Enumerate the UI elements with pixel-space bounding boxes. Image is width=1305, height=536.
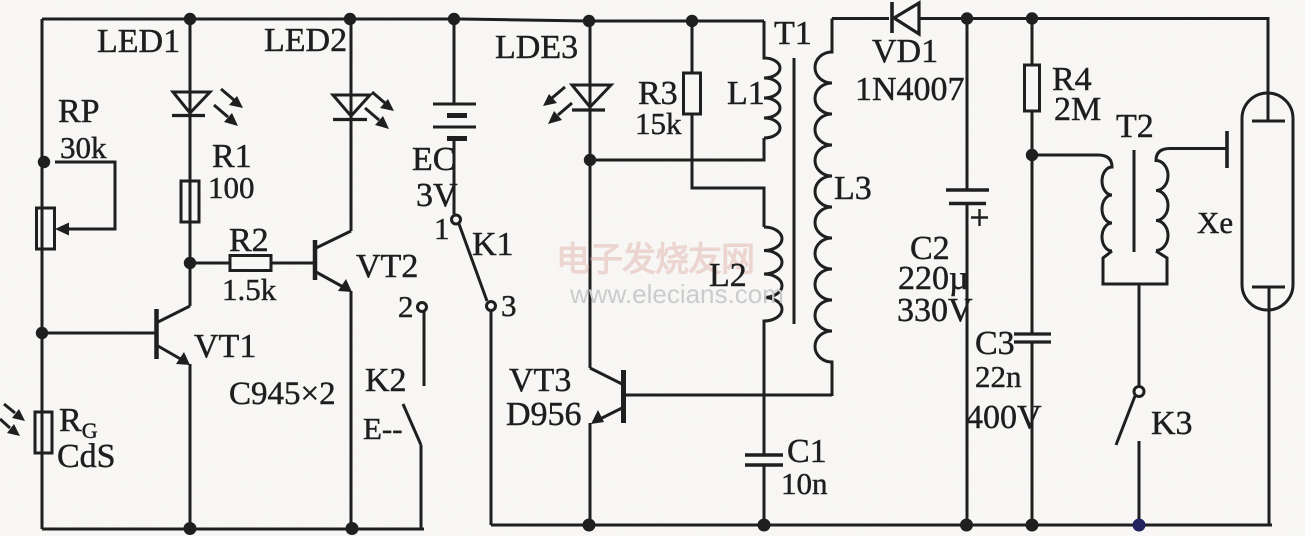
transistor VT3: [590, 368, 832, 525]
svg-text:E--: E--: [363, 411, 403, 446]
svg-text:100: 100: [208, 170, 255, 205]
svg-text:30k: 30k: [60, 130, 107, 165]
svg-text:VT3: VT3: [509, 362, 571, 399]
svg-text:330V: 330V: [897, 292, 973, 329]
inductor L2 (T1 primary lower): [764, 227, 782, 455]
svg-text:www.elecians.com: www.elecians.com: [569, 279, 784, 309]
watermark: [556, 241, 784, 309]
svg-text:C945×2: C945×2: [229, 376, 336, 412]
node bottom C2: [960, 519, 973, 532]
trigger electrode: [1225, 131, 1229, 168]
resistor R2: [190, 256, 315, 271]
node top rail C2: [961, 12, 973, 24]
potentiometer RP: [37, 162, 116, 249]
svg-text:K3: K3: [1151, 405, 1193, 442]
svg-text:1.5k: 1.5k: [222, 272, 277, 307]
node LDE3 cathode junction: [584, 154, 596, 166]
node top rail LDE3: [583, 15, 595, 27]
svg-text:RP: RP: [58, 93, 100, 130]
resistor R3: [684, 21, 765, 227]
svg-text:L2: L2: [709, 257, 747, 294]
svg-text:3: 3: [501, 288, 517, 323]
node RP wiper tap: [38, 156, 50, 168]
svg-text:C3: C3: [975, 325, 1015, 362]
diode VD1: [892, 2, 1268, 121]
svg-text:22n: 22n: [975, 359, 1022, 394]
svg-text:2M: 2M: [1054, 91, 1101, 128]
switch K1: [452, 215, 496, 525]
resistor R1: [181, 181, 199, 222]
switch K3: [1116, 387, 1144, 526]
wire left rail: [41, 19, 44, 529]
wire T2 tap to K3: [1138, 284, 1141, 386]
svg-text:C1: C1: [787, 433, 827, 470]
xenon tube Xe: [1242, 19, 1293, 526]
wire LDE3 node to L1 bottom: [590, 138, 764, 160]
resistor R4: [1025, 19, 1040, 335]
svg-text:K2: K2: [365, 362, 407, 399]
inductor L1 (T1 primary upper): [764, 21, 780, 138]
T2 core: [1133, 150, 1136, 252]
node bottom VT2 emitter: [346, 522, 359, 535]
svg-text:VT1: VT1: [194, 328, 256, 365]
transistor VT1: [42, 263, 190, 529]
terminal 2 and switch K2: [403, 303, 427, 530]
capacitor C1: [745, 455, 783, 525]
svg-text:VD1: VD1: [872, 33, 938, 70]
svg-text:EC: EC: [412, 141, 455, 178]
transistor VT2: [315, 231, 352, 529]
svg-text:10n: 10n: [781, 466, 828, 501]
LED LED1: [172, 19, 243, 263]
T1 core: [793, 58, 796, 324]
node R4 bottom / T2 feed junction: [1026, 149, 1038, 161]
node top rail LED1: [184, 13, 196, 25]
node VT1 base tap: [36, 327, 48, 339]
LED LED2: [333, 19, 394, 231]
svg-text:LED1: LED1: [97, 23, 180, 60]
svg-text:VT2: VT2: [356, 248, 418, 285]
wire top rail primary side: [42, 19, 764, 21]
svg-text:LED2: LED2: [264, 22, 347, 59]
svg-text:L1: L1: [727, 75, 765, 112]
svg-text:CdS: CdS: [57, 438, 116, 475]
svg-text:400V: 400V: [966, 399, 1042, 436]
svg-text:T1: T1: [774, 15, 812, 52]
battery EC: [433, 19, 476, 214]
LED LDE3: [543, 21, 611, 368]
svg-text:LDE3: LDE3: [495, 29, 578, 66]
node top rail R3: [686, 15, 698, 27]
node bottom VT3 emitter: [583, 519, 596, 532]
photoresistor RG: [0, 404, 52, 453]
node bottom K3 (blue tinted): [1133, 519, 1146, 532]
wire bottom rail left segment: [42, 528, 424, 531]
svg-text:K1: K1: [472, 226, 514, 263]
node top rail R4: [1026, 12, 1038, 24]
svg-text:3V: 3V: [416, 177, 458, 214]
node top rail battery: [448, 13, 460, 25]
wire top rail secondary side: [832, 17, 889, 20]
svg-text:Xe: Xe: [1197, 205, 1233, 240]
svg-text:T2: T2: [1116, 108, 1154, 145]
svg-text:R2: R2: [229, 222, 269, 259]
svg-text:D956: D956: [506, 396, 582, 433]
inductor L3 (T1 secondary): [815, 19, 832, 397]
transformer T2 primary winding: [1032, 155, 1112, 251]
svg-text:2: 2: [398, 289, 414, 324]
transformer T2 secondary winding: [1156, 149, 1227, 251]
node top rail LED2: [344, 13, 356, 25]
capacitor C2: [946, 19, 989, 526]
node R1/R2/VT1 collector junction: [184, 257, 196, 269]
node bottom C3: [1026, 519, 1039, 532]
svg-text:1: 1: [434, 211, 450, 246]
svg-text:1N4007: 1N4007: [855, 71, 965, 108]
wire bottom rail right segment: [491, 524, 1272, 527]
node bottom C1: [758, 519, 771, 532]
svg-text:15k: 15k: [635, 106, 682, 141]
node bottom VT1 emitter: [184, 522, 197, 535]
capacitor C3: [1014, 334, 1051, 525]
T2 base bucket: [1103, 251, 1167, 284]
svg-text:L3: L3: [834, 170, 872, 207]
